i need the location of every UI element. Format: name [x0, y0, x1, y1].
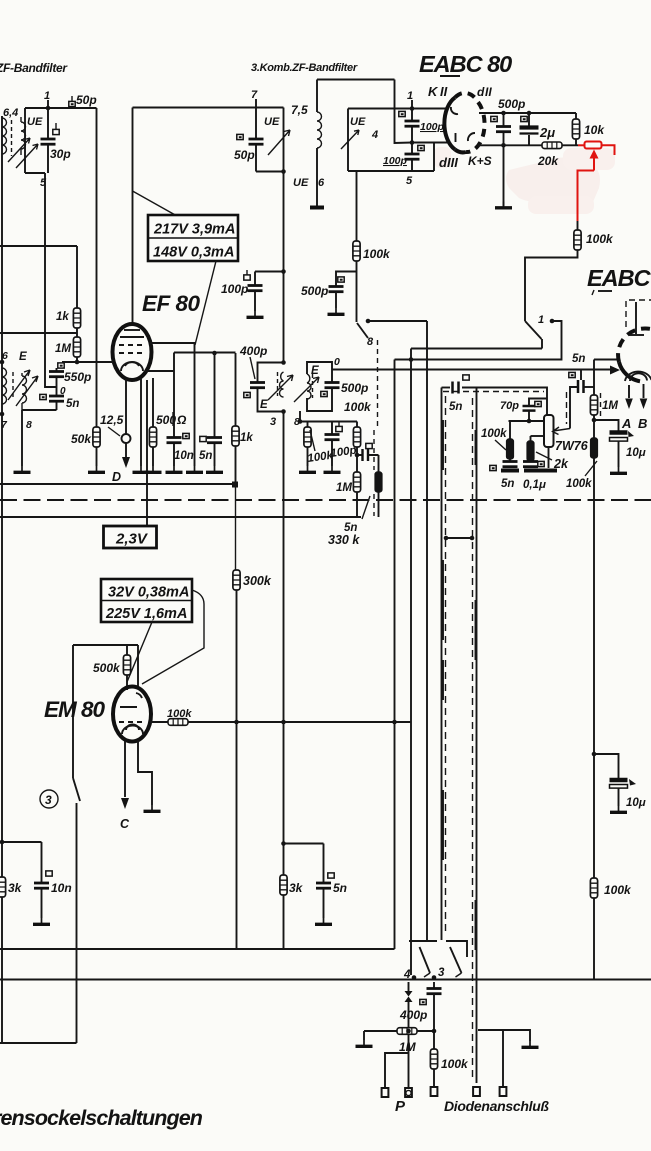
cap 70p — [523, 406, 536, 411]
cap 5n (screen) — [207, 438, 222, 443]
wire 100k down, left, down to switch — [525, 250, 578, 321]
ground 100p screen — [247, 311, 264, 317]
suppressor wire from tube — [145, 370, 174, 372]
comma tick under E — [592, 290, 594, 295]
svg-text:B: B — [638, 416, 647, 431]
voltage box 217V/148V — [148, 215, 238, 261]
voltage box 32V/225V — [101, 579, 192, 622]
node dot rail/100p — [281, 269, 286, 274]
ground T5 — [14, 466, 31, 472]
tube EF80 envelope — [113, 324, 152, 380]
svg-text:100k: 100k — [481, 428, 507, 440]
trimmer square 70p — [535, 401, 541, 406]
ground right of diode row — [522, 1041, 539, 1047]
svg-text:100k: 100k — [566, 478, 592, 490]
trimmer square 500p bf4 — [321, 391, 327, 396]
svg-text:100k: 100k — [586, 232, 614, 246]
svg-text:P: P — [395, 1098, 406, 1115]
winding T5 left — [2, 368, 7, 404]
trimmer square 50p (bf2) — [237, 134, 243, 139]
switch 8 pivot dot — [366, 319, 371, 324]
switch 1 contact dot — [550, 319, 555, 324]
resistor 100k (IF det load) — [353, 241, 360, 261]
svg-text:1M: 1M — [399, 1040, 417, 1054]
cap 0,1u — [523, 462, 538, 467]
wire 100k b to 1M — [356, 447, 358, 472]
switch box top segments — [409, 940, 437, 942]
tube EABC80 #1 envelope — [444, 93, 484, 153]
trimmer square 5n — [40, 394, 46, 399]
cap 5n (osc pad) — [56, 387, 58, 410]
pin 4 dot — [412, 975, 417, 980]
10u1 to ground — [618, 441, 620, 467]
node dots on rail — [281, 360, 286, 365]
trimmer square 400p — [244, 392, 250, 397]
rail x594 top — [593, 360, 595, 396]
arrow into tube 2 grid — [610, 366, 620, 375]
variable arrow T5b — [16, 376, 38, 406]
svg-text:4: 4 — [371, 129, 378, 141]
svg-text:3: 3 — [45, 793, 52, 807]
series cap 5n (AF) — [453, 382, 459, 394]
cap 400p bottom — [427, 989, 442, 994]
screen wire riser x174 — [173, 353, 175, 467]
svg-text:100p: 100p — [420, 121, 445, 133]
switch 1 blade — [525, 321, 542, 339]
resistor 3k (right, on rail) — [280, 875, 287, 895]
trimmer square 5n AF — [463, 375, 469, 380]
node dot mid — [410, 140, 415, 145]
rail B right segment to tube 2 — [594, 359, 618, 361]
svg-text:Ω: Ω — [176, 413, 187, 427]
trimmer square 550p — [58, 363, 64, 368]
rail A (y348) — [411, 348, 542, 350]
wire 2k top to pot — [531, 435, 545, 437]
cap 10n — [167, 438, 182, 443]
pin 1 tick (bf3) — [411, 100, 413, 109]
bandfilter1 box top edge — [25, 107, 97, 109]
EM80 deflector tick — [136, 693, 142, 698]
ground EM80 — [144, 805, 161, 811]
resistor 500 ohm lead — [152, 378, 154, 466]
svg-text:3k: 3k — [8, 881, 23, 895]
svg-text:III: III — [447, 155, 458, 170]
wire 50p bottom to rail — [256, 171, 284, 173]
branch to P terminals — [385, 1053, 409, 1088]
wire right leg to tube — [137, 645, 139, 689]
red wire pot left — [578, 144, 585, 146]
EM80 cathode lead + C arrow — [124, 741, 126, 797]
node dot 500p — [501, 111, 506, 116]
cathode hook KII — [451, 107, 458, 114]
junction wire y421 — [509, 420, 545, 422]
switch 3 blade — [73, 778, 80, 801]
svg-text:7,5: 7,5 — [291, 103, 308, 117]
resistor 1M — [73, 337, 80, 357]
wire 100p to rail x283 — [255, 271, 284, 273]
trimmer square 30p — [53, 129, 59, 134]
switch blade 3 — [450, 947, 462, 973]
svg-text:100k: 100k — [167, 708, 192, 720]
svg-text:100k: 100k — [441, 1057, 469, 1071]
svg-text:3: 3 — [438, 967, 445, 979]
pointer line to voltage box — [133, 191, 178, 216]
trimmer square 2u — [521, 116, 527, 121]
resistor 100k EM80 — [168, 719, 188, 726]
tube EABC80 #2 envelope (dashed) — [618, 328, 651, 362]
wiper arrow 7W76 — [553, 427, 571, 435]
resistor 500k — [126, 645, 128, 655]
cap 50p (bf2) — [255, 108, 257, 172]
svg-text:5n: 5n — [333, 881, 347, 895]
AGC wire lower — [0, 332, 77, 334]
ground stub left of 1M — [363, 1031, 365, 1040]
2,3V box — [104, 526, 157, 548]
svg-text:A: A — [621, 416, 631, 431]
core dashes T1 — [11, 120, 13, 156]
svg-text:6,4: 6,4 — [3, 107, 18, 119]
wire 100k to terminal — [433, 1069, 435, 1087]
node dot pin1 — [46, 106, 51, 111]
ground 5n bottom — [315, 918, 332, 924]
shielded cable 2 (to terminal) — [476, 388, 478, 1084]
wire 5n to shield column — [570, 387, 578, 425]
core dashes bf4R — [312, 374, 314, 398]
svg-text:EM 80: EM 80 — [44, 697, 106, 722]
bandfilter1 right edge down to 50k — [96, 108, 98, 427]
pointer 5n/330k — [362, 496, 370, 519]
svg-text:1: 1 — [44, 90, 50, 102]
resistor 50k — [93, 427, 100, 447]
anode wire EF80 — [150, 343, 195, 466]
pointer 2k — [536, 452, 552, 460]
svg-text:20k: 20k — [537, 154, 559, 168]
tube2 top lead — [635, 302, 637, 334]
svg-text:500p: 500p — [498, 97, 525, 111]
ground bar 5n low — [501, 469, 519, 473]
pointer 100k det — [585, 461, 597, 476]
pin 6 dot — [0, 360, 4, 365]
junction blob end of ground bus — [232, 482, 238, 488]
EM80 target bar — [120, 706, 137, 708]
wire 10k to pot node — [575, 139, 577, 145]
EM80 cathode arc — [122, 726, 143, 735]
terminal P2 (circle) — [405, 1088, 412, 1097]
ground 500p det filter — [328, 308, 345, 314]
svg-text:7W76: 7W76 — [555, 439, 589, 453]
cable tie rung — [444, 537, 474, 539]
resistor 500ohm — [149, 427, 156, 447]
resistor 100k (grid leak) stub — [509, 421, 511, 439]
circled 3 — [40, 790, 58, 808]
svg-text:7: 7 — [251, 89, 258, 101]
D arrow — [122, 457, 130, 468]
svg-text:5n: 5n — [199, 450, 212, 462]
AGC wire upper — [0, 245, 77, 247]
terminal 400p/100k — [431, 1087, 438, 1096]
node dot 70p/wire — [527, 419, 532, 424]
10u2 to ground — [618, 788, 620, 806]
5n coupling from AF rail — [580, 370, 582, 381]
svg-text:100k: 100k — [604, 883, 632, 897]
underline under A — [598, 290, 612, 292]
switch blade 4 — [420, 947, 431, 973]
screen wire EF80 — [174, 352, 236, 354]
wire bf3 bottom to 100k — [356, 171, 358, 241]
wire 1M right to cap column — [417, 1030, 434, 1032]
rail below 3k right — [283, 895, 285, 949]
pin 1 tick — [47, 100, 49, 108]
trimmer square 0,1u — [538, 461, 544, 466]
bottom-left border corner — [0, 1042, 77, 1044]
wire blade to bottom corner — [76, 803, 78, 1043]
bandfilter1 box left edge — [24, 108, 26, 173]
rail x594 long down — [593, 458, 595, 878]
diode/bowtie symbol — [405, 991, 413, 1002]
svg-text:II: II — [440, 84, 448, 99]
cap 500p (det filter) — [329, 287, 344, 292]
svg-text:EF 80: EF 80 — [142, 291, 201, 316]
polarity arrow 10u2 — [629, 779, 636, 786]
coil UE6 riser — [316, 80, 318, 113]
resistor 300k — [233, 570, 240, 590]
variable arrow bf4R — [294, 377, 319, 402]
heater lead down to 2,3V — [146, 380, 148, 526]
resistor 100k grid leak (dark) — [507, 439, 514, 459]
svg-text:5n: 5n — [501, 478, 514, 490]
trimmer square 10n — [183, 433, 189, 438]
wire to 500p gnd cap — [336, 272, 357, 287]
svg-text:1M: 1M — [602, 400, 618, 412]
trimmer square 100p lower — [418, 145, 424, 150]
EF80 cathode arc — [121, 362, 143, 371]
wire K+S out — [478, 144, 542, 146]
cap 500p det — [503, 113, 505, 206]
svg-text:50k: 50k — [71, 432, 92, 446]
svg-text:500k: 500k — [93, 661, 121, 675]
resistor 1M (b) — [353, 472, 360, 492]
svg-text:UE: UE — [264, 116, 280, 128]
pointer 12,5 — [108, 427, 120, 436]
cable2 terminal — [473, 1087, 480, 1096]
svg-text:10n: 10n — [51, 881, 72, 895]
svg-text:148V 0,3mA: 148V 0,3mA — [153, 245, 234, 261]
wire to 10u #2 — [594, 754, 619, 778]
cap 100p screen — [254, 272, 256, 312]
wire 20k to pot — [562, 144, 578, 146]
EF80 grid rows — [120, 336, 144, 338]
tube2 diode pins A B — [629, 384, 644, 398]
bottom rail lower full width — [0, 979, 651, 981]
wire down from coil wire into filter — [395, 80, 413, 144]
node dot screen/5n — [212, 351, 217, 356]
svg-text:217V 3,9mA: 217V 3,9mA — [153, 222, 235, 238]
node dot (283,172) — [281, 169, 286, 174]
main rail x283 lower half — [283, 412, 285, 876]
resistor 100k (dark, det) — [591, 438, 598, 458]
tube EM80 envelope — [113, 687, 151, 742]
node dot rail — [281, 841, 286, 846]
trimmer 50p on top edge — [69, 101, 75, 106]
svg-text:EABC 80: EABC 80 — [419, 51, 512, 77]
chassis dashed line — [0, 499, 651, 501]
switch 8 blade — [357, 323, 368, 338]
svg-text:0,1μ: 0,1μ — [523, 479, 546, 491]
potentiometer 7W76 body — [544, 415, 554, 447]
svg-text:3k: 3k — [289, 881, 304, 895]
svg-text:5: 5 — [406, 175, 413, 187]
pointer 100k a — [310, 430, 315, 451]
node dot 2u — [527, 111, 532, 116]
red wire wiper down-left-down — [578, 171, 595, 222]
70p top hook to pot top — [529, 399, 547, 407]
svg-text:8: 8 — [26, 419, 32, 431]
ground 10n bottom — [33, 918, 50, 924]
blade hooks — [424, 973, 462, 977]
faint continuation x235 — [235, 484, 237, 570]
svg-text:5n: 5n — [449, 401, 462, 413]
coil winding UE6 — [317, 112, 322, 148]
svg-text:4: 4 — [403, 969, 411, 981]
pin 3 dot — [432, 975, 437, 980]
wire 30p down to 550p junction — [45, 173, 57, 387]
variable arrow (bf3) — [341, 130, 359, 149]
contact wire to riser — [552, 321, 562, 361]
ground 500p det — [495, 202, 512, 208]
bf4 left box outline — [258, 363, 284, 412]
resistor 1k (screen feed) — [232, 426, 239, 446]
long vertical x411 — [410, 349, 412, 976]
wire 100k a to ground — [307, 447, 309, 466]
wire 400p to junction — [433, 994, 435, 1049]
cap 400p on box edge — [250, 383, 265, 388]
svg-text:UE: UE — [350, 116, 366, 128]
svg-text:D: D — [112, 470, 121, 484]
svg-text:C: C — [120, 817, 130, 831]
ground 100p b — [324, 466, 341, 472]
resistor 100k (B+ dropper) — [590, 878, 597, 898]
tube2 cathode arcs — [625, 372, 651, 381]
svg-text:Diodenanschluß: Diodenanschluß — [444, 1098, 549, 1114]
wire pin3 down — [433, 982, 435, 989]
node dot mid — [355, 453, 360, 458]
shielded cable dash along 330k — [373, 430, 375, 516]
dial lamp circle — [122, 434, 131, 443]
pointer box2 to target anode — [142, 590, 204, 684]
resistor 2k (dark) — [530, 436, 532, 441]
variable arrow bf4L — [268, 375, 293, 400]
tube2 shield dashed box — [626, 300, 651, 327]
trimmer square 400p bottom — [420, 999, 426, 1004]
svg-text:6: 6 — [2, 350, 8, 362]
svg-text:225V 1,6mA: 225V 1,6mA — [105, 606, 187, 622]
cap 100p upper — [411, 109, 413, 143]
resistor 100k bottom — [430, 1049, 437, 1069]
cap 5n bottom — [323, 844, 325, 919]
svg-text:1: 1 — [407, 90, 413, 102]
EM80 grid wire — [73, 644, 138, 646]
bandfilter3 box top edge — [348, 108, 447, 110]
svg-text:32V 0,38mA: 32V 0,38mA — [108, 585, 189, 601]
terminal diode — [500, 1087, 507, 1096]
svg-text:8: 8 — [367, 336, 374, 348]
switch 1 blade tick to rail A — [541, 339, 543, 349]
resistor 10k — [572, 119, 579, 139]
node dot on box top — [410, 106, 415, 111]
svg-text:70p: 70p — [500, 400, 519, 412]
wire 50k to ground — [96, 447, 98, 466]
node dot 10u2 tap — [592, 752, 597, 757]
cap 30p — [47, 108, 49, 173]
svg-text:0: 0 — [334, 356, 340, 368]
svg-text:K: K — [428, 84, 439, 99]
cap 5n below 100k — [509, 459, 511, 462]
svg-text:100p: 100p — [383, 155, 408, 167]
resistor 330k on cable line — [375, 472, 382, 492]
K+S internal arc — [468, 133, 475, 141]
wire pin4 down — [408, 982, 410, 991]
coil bf4 left — [280, 372, 284, 397]
pink wash right — [563, 148, 615, 170]
switch 8 wire — [368, 320, 427, 322]
variable arrow (bf2) — [268, 130, 290, 155]
wire junction to tube dIII — [412, 142, 447, 144]
variable arrow T1b — [16, 144, 38, 168]
svg-text:rensockelschaltungen: rensockelschaltungen — [0, 1106, 203, 1130]
bf4 right box outline — [307, 362, 332, 411]
svg-text:330 k: 330 k — [328, 533, 360, 547]
svg-text:UE: UE — [27, 116, 43, 128]
rail C (AF line y369.5) — [332, 369, 614, 371]
wire box bottom right riser — [433, 143, 435, 172]
svg-text:50p: 50p — [234, 148, 255, 162]
cap 500p bf4 — [325, 383, 340, 388]
resistor 3k (left, on border) — [0, 877, 6, 897]
wire 5n to transformer — [22, 409, 57, 411]
variable arrow T5a — [8, 370, 30, 400]
trimmer square 5n low — [490, 465, 496, 470]
svg-text:5n: 5n — [66, 398, 79, 410]
rail 1M to 100k — [593, 415, 595, 438]
node dot 10u tap — [592, 418, 597, 423]
ground bar pot — [524, 469, 557, 473]
wire 500k to tube — [126, 675, 128, 690]
ground 10n — [166, 466, 183, 472]
wire 8-row — [300, 421, 357, 423]
wire dII anode out — [479, 112, 576, 114]
svg-text:E: E — [260, 399, 268, 411]
coil winding L2 top-left — [21, 117, 26, 155]
wire corner top to 10k — [575, 113, 577, 119]
rail B (y360) — [395, 359, 562, 361]
coil UE6 lower lead — [316, 148, 318, 206]
svg-text:400p: 400p — [399, 1008, 427, 1022]
wire 300k down to EM80 wire and bottom rail — [236, 590, 238, 949]
svg-text:E: E — [19, 351, 27, 363]
ground bus solid rail upper-left — [0, 483, 235, 485]
shield dashes x377 upper — [377, 340, 379, 428]
coil UE6 end bar — [310, 206, 324, 210]
bandfilter2 top edge — [133, 107, 284, 109]
wire 100k b top — [356, 422, 358, 428]
resistor 100k (AVC) — [574, 230, 581, 250]
bandfilter3 box left edge — [347, 109, 349, 172]
ground 50k — [88, 466, 105, 472]
svg-text:ZF-Bandfilter: ZF-Bandfilter — [0, 61, 68, 75]
EF80 cathode lead to ground — [140, 378, 142, 466]
shielded wire run top (dashed pair) — [442, 387, 451, 389]
pink wash under red trace — [506, 158, 600, 207]
